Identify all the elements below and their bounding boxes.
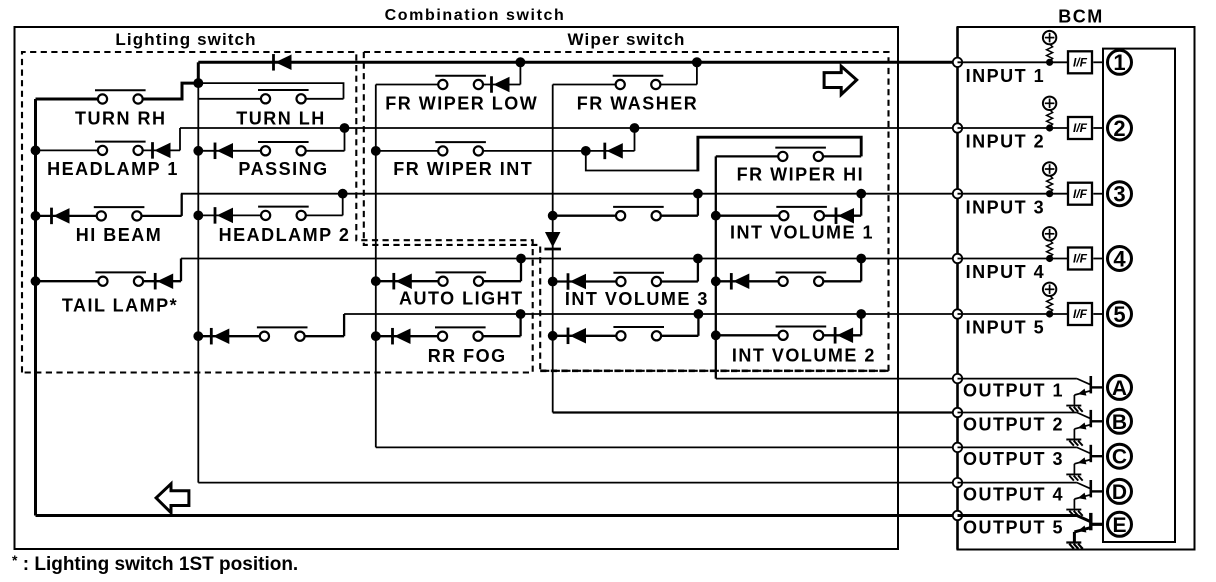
wire OUTPUT 5 (thick) <box>36 514 958 517</box>
diode lighting row5 <box>211 328 229 345</box>
svg-text:INPUT 5: INPUT 5 <box>966 318 1046 338</box>
wire AUTO LIGHT right <box>483 280 521 282</box>
label HEADLAMP 1 <box>47 159 179 179</box>
junction dot x553 row3 <box>548 211 558 221</box>
label FR WIPER INT <box>393 159 533 179</box>
wire INT VOLUME1 riser to INPUT3 <box>860 194 862 216</box>
ground OUTPUT 2 <box>1066 440 1082 446</box>
svg-text:5: 5 <box>1113 302 1125 327</box>
label Lighting switch <box>115 30 256 49</box>
wire HI BEAM right <box>141 215 182 217</box>
ground OUTPUT 1 <box>1066 406 1082 412</box>
pin B circled <box>1108 409 1132 434</box>
wire TURN RH right jog (thick) <box>142 83 198 99</box>
switch wiper row3 <box>613 207 664 220</box>
junction dot INPUT3 x698 <box>693 189 703 199</box>
junction dot INPUT4 x521 <box>516 254 526 264</box>
svg-text:1: 1 <box>1113 50 1125 75</box>
wire lighting row5 left <box>198 335 260 337</box>
svg-text:I/F: I/F <box>1073 252 1088 266</box>
label FR WASHER <box>577 94 699 114</box>
node INPUT 2 terminal <box>953 123 962 132</box>
junction dot INPUT5 x861 <box>856 309 866 319</box>
wire wiper row4r right <box>823 280 861 282</box>
label INPUT 3 <box>966 197 1046 217</box>
transistor Q2 OUTPUT 2 <box>958 410 1104 439</box>
wire I/F to pin 3 <box>1093 193 1103 195</box>
arrow left (flow marker) <box>156 484 189 513</box>
transistor Q4 OUTPUT 4 <box>958 480 1104 509</box>
label TURN RH <box>75 108 167 128</box>
label BCM <box>1058 7 1104 27</box>
junction dot x553 row5 <box>548 331 558 341</box>
diode HEADLAMP1 <box>153 142 171 159</box>
junction dot x376 row4 <box>371 276 381 286</box>
wire wiper row5l riser to INPUT5 <box>697 314 699 336</box>
switch HEADLAMP 2 <box>258 207 309 220</box>
wire lighting row5 right <box>304 335 344 337</box>
I/F box INPUT 3 <box>1068 183 1092 205</box>
pin E circled <box>1108 512 1132 537</box>
diode INT VOLUME 2 <box>835 327 853 344</box>
pin C circled <box>1108 444 1132 469</box>
ground OUTPUT 5 <box>1066 543 1082 549</box>
wire AUTO LIGHT left <box>376 280 439 282</box>
wire INPUT 1 to I/F <box>958 61 1070 63</box>
switch PASSING <box>258 142 309 155</box>
wire INPUT 2 to I/F <box>958 127 1070 129</box>
wire vertical x376 <box>375 85 377 448</box>
svg-text:OUTPUT 5: OUTPUT 5 <box>963 517 1064 537</box>
switch HI BEAM <box>94 207 145 220</box>
power symbol INPUT 1 <box>1043 31 1056 44</box>
switch lighting row5 <box>257 327 308 340</box>
svg-text:E: E <box>1112 514 1126 537</box>
wire FR WIPER LOW left <box>376 84 439 86</box>
wire wiper row5l left <box>553 335 617 337</box>
wire vertical x553 <box>552 85 554 413</box>
svg-text:Combination switch: Combination switch <box>385 7 566 24</box>
wire HI BEAM riser to INPUT3 <box>181 194 183 216</box>
switch HEADLAMP 1 <box>95 142 146 155</box>
svg-text:FR WIPER HI: FR WIPER HI <box>737 165 865 185</box>
wire vertical x716 <box>715 156 717 378</box>
wire wiper row4r left <box>716 280 779 282</box>
node OUTPUT 4 terminal <box>953 478 962 487</box>
junction dot INPUT2 x344 <box>340 123 350 133</box>
svg-text:I/F: I/F <box>1073 307 1088 321</box>
svg-text:Wiper switch: Wiper switch <box>568 30 686 49</box>
arrow right (flow marker) <box>824 66 857 94</box>
svg-text:TURN LH: TURN LH <box>236 108 326 128</box>
wire FR WIPER HI left <box>716 155 779 157</box>
I/F box INPUT 1 <box>1068 51 1092 73</box>
label INT VOLUME 3 <box>565 289 709 309</box>
wire I/F to pin 1 <box>1093 61 1103 63</box>
svg-text:OUTPUT 4: OUTPUT 4 <box>963 484 1064 504</box>
wire INPUT 4 to I/F <box>958 258 1070 260</box>
pin A circled <box>1108 375 1132 400</box>
pin 1 circled <box>1108 50 1132 75</box>
junction dot INPUT 3 resistor <box>1046 190 1053 197</box>
svg-text:FR WIPER INT: FR WIPER INT <box>393 159 533 179</box>
svg-text:INT VOLUME 1: INT VOLUME 1 <box>730 222 874 242</box>
junction dot TURN RH node <box>193 78 203 88</box>
wire wiper row3 left <box>553 215 617 217</box>
wire TURN RH left (thick) <box>36 98 99 101</box>
junction dot x36 row4 <box>31 276 41 286</box>
wire RR FOG left <box>376 335 438 337</box>
resistor INPUT 2 pull-up <box>1047 110 1053 127</box>
junction dot x586 row2 <box>581 146 591 156</box>
wire wiper row3 riser to INPUT3 <box>697 194 699 216</box>
wire lighting row5 riser to INPUT5 <box>343 314 345 336</box>
wire left vertical bus (thick) <box>34 99 37 516</box>
switch FR WIPER INT <box>435 142 486 155</box>
junction dot INPUT 1 resistor <box>1046 59 1053 66</box>
wire INPUT 4 bus <box>181 258 958 260</box>
switch INT VOLUME 3 <box>613 273 664 286</box>
svg-text:2: 2 <box>1113 116 1125 141</box>
wire INT VOLUME1 right <box>824 215 862 217</box>
wire OUTPUT 1 <box>716 378 958 380</box>
label RR FOG <box>428 346 507 366</box>
I/F box INPUT 4 <box>1068 248 1092 270</box>
wire wiper row5l right <box>661 335 699 337</box>
junction dot INPUT3 x861 <box>856 189 866 199</box>
diode down on x553 <box>544 232 561 249</box>
junction dot INPUT5 x698 <box>694 309 704 319</box>
I/F box INPUT 2 <box>1068 117 1092 139</box>
node OUTPUT 2 terminal <box>953 408 962 417</box>
svg-text:4: 4 <box>1113 246 1126 271</box>
node OUTPUT 5 terminal <box>953 511 962 520</box>
wire INT VOLUME2 riser to INPUT5 <box>860 314 862 335</box>
label OUTPUT 4 <box>963 484 1064 504</box>
switch FR WIPER LOW <box>435 76 486 89</box>
svg-text:INPUT 2: INPUT 2 <box>966 132 1046 152</box>
wire INPUT 1 bus (thick) <box>198 61 957 64</box>
wire INT VOLUME1 left <box>716 215 780 217</box>
BCM inner pin box <box>1103 49 1175 542</box>
resistor INPUT 1 pull-up <box>1047 44 1053 61</box>
label INPUT 5 <box>966 318 1046 338</box>
junction dot INPUT 5 resistor <box>1046 310 1053 317</box>
pin 3 circled <box>1108 182 1132 207</box>
ground OUTPUT 3 <box>1066 474 1082 480</box>
junction dot x376 row2 <box>371 146 381 156</box>
wire FR WIPER HI right <box>823 155 861 157</box>
wire HI BEAM left <box>36 215 98 217</box>
wire I/F to pin 2 <box>1093 127 1103 129</box>
label INT VOLUME 2 <box>732 346 876 366</box>
svg-text:3: 3 <box>1113 182 1125 207</box>
wire PASSING left <box>198 150 261 152</box>
transistor Q3 OUTPUT 3 <box>958 445 1104 474</box>
junction dot x553 row4 <box>548 277 558 287</box>
junction dot x36 row2 <box>31 146 41 156</box>
BCM outer box <box>958 27 1195 550</box>
switch TAIL LAMP <box>95 272 146 285</box>
diode wiper row4r <box>731 273 749 290</box>
node INPUT 4 terminal <box>953 254 962 263</box>
switch wiper row5l <box>613 327 664 340</box>
svg-text:TURN RH: TURN RH <box>75 108 167 128</box>
transistor Q5 OUTPUT 5 <box>958 513 1104 542</box>
label Wiper switch <box>568 30 686 49</box>
wire TAIL LAMP right <box>143 280 181 282</box>
switch AUTO LIGHT <box>436 272 487 285</box>
wire INPUT 3 to I/F <box>958 193 1070 195</box>
wire FR WASHER right <box>661 84 697 86</box>
label PASSING <box>238 159 328 179</box>
diode on INPUT 1 line <box>274 54 292 71</box>
pin 2 circled <box>1108 116 1132 141</box>
label FR WIPER HI <box>737 165 865 185</box>
footnote <box>12 552 298 575</box>
label INPUT 4 <box>966 262 1046 282</box>
diode RR FOG <box>393 328 411 345</box>
junction dot x716 row5 <box>711 330 721 340</box>
wire HEADLAMP2 left <box>198 214 261 216</box>
switch RR FOG <box>435 327 486 340</box>
wiper switch dashed box bottom (bold) <box>540 369 888 372</box>
wire FR WIPER INT right <box>483 150 585 152</box>
I/F box INPUT 5 <box>1068 303 1092 325</box>
resistor INPUT 5 pull-up <box>1047 296 1053 313</box>
diode PASSING <box>215 143 233 160</box>
junction dot INPUT 4 resistor <box>1046 255 1053 262</box>
node INPUT 3 terminal <box>953 189 962 198</box>
label INPUT 2 <box>966 132 1046 152</box>
wire vertical x198 riser to INPUT1 (thick) <box>197 62 200 83</box>
svg-text:OUTPUT 1: OUTPUT 1 <box>963 380 1064 400</box>
pin 5 circled <box>1108 302 1132 327</box>
junction dot x198 row5 <box>193 331 203 341</box>
wire FR WIPER LOW riser to INPUT1 <box>519 62 521 84</box>
label INT VOLUME 1 <box>730 222 874 242</box>
label OUTPUT 1 <box>963 380 1064 400</box>
junction dot x376 row5 <box>371 331 381 341</box>
pin 4 circled <box>1108 246 1132 271</box>
junction dot x716 row3 <box>711 211 721 221</box>
wire TURN LH right <box>305 98 343 100</box>
svg-text:I/F: I/F <box>1073 187 1088 201</box>
wire vertical x198 <box>197 83 199 483</box>
wire INT VOLUME3 left <box>553 280 617 282</box>
label AUTO LIGHT <box>399 289 524 309</box>
junction dot INPUT2 x634 <box>630 123 640 133</box>
wire wiper row4r riser to INPUT4 <box>860 259 862 282</box>
wire INT VOLUME2 left <box>716 334 779 336</box>
svg-text:INPUT 4: INPUT 4 <box>966 262 1046 282</box>
power symbol INPUT 5 <box>1043 283 1056 296</box>
junction dot INPUT1 x520 <box>515 57 525 67</box>
ground OUTPUT 4 <box>1066 510 1082 516</box>
wire OUTPUT 4 <box>198 482 957 484</box>
wire I/F to pin 4 <box>1093 258 1103 260</box>
power symbol INPUT 3 <box>1043 162 1056 175</box>
wire INT VOLUME2 right <box>823 334 861 336</box>
label OUTPUT 2 <box>963 414 1064 434</box>
junction dot INPUT5 x521 <box>516 309 526 319</box>
wire FR WASHER left <box>553 84 616 86</box>
svg-text:D: D <box>1112 481 1127 504</box>
wire HEADLAMP2 riser to INPUT3 <box>342 194 344 216</box>
diode INT VOLUME 1 <box>836 207 854 224</box>
svg-text:I/F: I/F <box>1073 121 1088 135</box>
label OUTPUT 3 <box>963 449 1064 469</box>
svg-text:I/F: I/F <box>1073 56 1088 70</box>
wire I/F to pin 5 <box>1093 313 1103 315</box>
wire riser x634 to INPUT2 <box>634 128 636 151</box>
junction dot x198 row2 <box>193 146 203 156</box>
svg-text:FR WIPER LOW: FR WIPER LOW <box>385 94 538 114</box>
svg-text:OUTPUT 3: OUTPUT 3 <box>963 449 1064 469</box>
node OUTPUT 1 terminal <box>953 374 962 383</box>
power symbol INPUT 2 <box>1043 97 1056 110</box>
wire HEADLAMP1 left <box>36 149 99 151</box>
svg-text:INPUT 1: INPUT 1 <box>966 66 1046 86</box>
svg-text:TAIL LAMP*: TAIL LAMP* <box>62 296 178 316</box>
wire HEADLAMP1 right <box>142 149 180 151</box>
wire INT VOLUME3 riser to INPUT4 <box>697 259 699 282</box>
resistor INPUT 3 pull-up <box>1047 175 1053 192</box>
switch wiper row4r <box>776 273 827 286</box>
svg-text:INPUT 3: INPUT 3 <box>966 197 1046 217</box>
svg-text:BCM: BCM <box>1058 7 1104 27</box>
switch FR WIPER HI <box>775 148 826 161</box>
label HEADLAMP 2 <box>219 225 351 245</box>
svg-text:HEADLAMP 2: HEADLAMP 2 <box>219 225 351 245</box>
resistor INPUT 4 pull-up <box>1047 240 1053 257</box>
wire FR WIPER HI feed lower <box>586 151 698 171</box>
switch TURN LH <box>258 90 309 103</box>
svg-text:Lighting switch: Lighting switch <box>115 30 256 49</box>
wire FR WASHER riser to INPUT1 <box>696 62 698 84</box>
wire OUTPUT 2 <box>553 411 958 413</box>
junction dot INPUT 2 resistor <box>1046 124 1053 131</box>
label Combination switch <box>385 7 566 24</box>
node INPUT 5 terminal <box>953 309 962 318</box>
svg-text:HI BEAM: HI BEAM <box>76 225 163 245</box>
node INPUT 1 terminal <box>953 58 962 67</box>
switch TURN RH <box>95 90 146 103</box>
wire OUTPUT 3 <box>376 446 958 448</box>
wire HEADLAMP2 right <box>306 214 343 216</box>
diode wiper row5l <box>568 328 586 345</box>
wire RR FOG right <box>482 335 520 337</box>
switch FR WASHER <box>613 76 664 89</box>
wiper switch dashed box <box>364 52 889 373</box>
svg-text:AUTO LIGHT: AUTO LIGHT <box>399 289 524 309</box>
switch INT VOLUME 1 <box>776 207 827 220</box>
diode AUTO LIGHT <box>394 273 412 290</box>
wire TURN LH left <box>198 98 261 100</box>
diode TAIL LAMP <box>155 273 173 290</box>
junction dot INPUT4 x698 <box>693 254 703 264</box>
wire PASSING right <box>305 150 344 152</box>
wire TAIL LAMP riser to INPUT4 <box>180 259 182 282</box>
wire FR WIPER INT left <box>376 150 439 152</box>
label FR WIPER LOW <box>385 94 538 114</box>
wire diode link to INPUT2 <box>586 150 635 152</box>
junction dot INPUT1 x697 <box>692 57 702 67</box>
svg-text:RR FOG: RR FOG <box>428 346 507 366</box>
wire FR WIPER LOW right <box>483 84 520 86</box>
transistor Q1 OUTPUT 1 <box>958 376 1104 405</box>
lighting switch dashed box <box>22 52 533 373</box>
junction dot x198 row3 <box>193 211 203 221</box>
junction dot x716 row4 <box>711 276 721 286</box>
node OUTPUT 3 terminal <box>953 443 962 452</box>
svg-text:OUTPUT 2: OUTPUT 2 <box>963 414 1064 434</box>
wire PASSING riser to INPUT2 <box>344 128 346 151</box>
wire wiper row3 right <box>661 215 698 217</box>
svg-text:INT VOLUME 2: INT VOLUME 2 <box>732 346 876 366</box>
wire INPUT 5 to I/F <box>958 313 1070 315</box>
svg-text:INT VOLUME 3: INT VOLUME 3 <box>565 289 709 309</box>
svg-text:A: A <box>1112 377 1127 400</box>
junction dot x36 row3 <box>31 211 41 221</box>
label TURN LH <box>236 108 326 128</box>
wire INPUT 5 bus <box>344 313 957 315</box>
BCM left edge (bus) <box>956 27 959 550</box>
wire INPUT 2 bus <box>180 127 958 129</box>
junction dot INPUT3 x343 <box>338 189 348 199</box>
label TAIL LAMP* <box>62 296 178 316</box>
pin D circled <box>1108 479 1132 504</box>
diode FR WIPER LOW <box>492 76 510 93</box>
label INPUT 1 <box>966 66 1046 86</box>
diode HI BEAM <box>52 208 70 225</box>
label HI BEAM <box>76 225 163 245</box>
svg-text:FR WASHER: FR WASHER <box>577 94 699 114</box>
wire TAIL LAMP left <box>36 280 99 282</box>
wire AUTO LIGHT riser to INPUT4 <box>520 259 522 282</box>
combination switch outer box <box>15 27 899 549</box>
svg-text:* : Lighting switch 1ST positi: * : Lighting switch 1ST position. <box>12 552 298 575</box>
wire RR FOG riser to INPUT5 <box>519 314 521 336</box>
diode FR WIPER INT to INPUT2 <box>605 143 623 160</box>
diode INT VOLUME 3 <box>568 273 586 290</box>
wire INT VOLUME3 right <box>661 280 698 282</box>
diode HEADLAMP2 <box>215 207 233 224</box>
junction dot INPUT4 x861 <box>856 254 866 264</box>
label OUTPUT 5 <box>963 517 1064 537</box>
svg-text:PASSING: PASSING <box>238 159 328 179</box>
wire TURN LH feed <box>198 83 343 99</box>
svg-text:C: C <box>1112 446 1127 469</box>
wire INPUT 3 bus <box>181 193 958 195</box>
wire HEADLAMP1 riser to INPUT2 <box>179 128 181 150</box>
power symbol INPUT 4 <box>1043 227 1056 240</box>
svg-text:HEADLAMP 1: HEADLAMP 1 <box>47 159 179 179</box>
wire FR WIPER HI feed upper (thick) <box>698 137 861 171</box>
switch INT VOLUME 2 <box>776 327 827 340</box>
svg-text:B: B <box>1112 411 1127 434</box>
